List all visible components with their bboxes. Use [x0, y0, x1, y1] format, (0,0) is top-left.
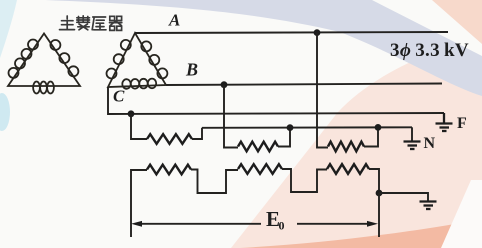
resistor R5 (lower row, second)	[238, 164, 282, 174]
label F	[457, 115, 467, 132]
resistor R1 (C phase, upper row)	[147, 134, 192, 144]
node: junction dot output	[376, 190, 383, 197]
wire: phase C bus (to fault point F)	[108, 87, 444, 114]
wire: output node to right ground	[379, 193, 428, 202]
wire: step between R5 and R6	[282, 169, 327, 192]
resistor R6 (lower row, third)	[327, 164, 369, 174]
wire: phase A bus	[135, 32, 448, 33]
resistor R2 (B phase, upper row)	[238, 142, 278, 152]
wire: C-phase lead down to resistor R1	[131, 114, 147, 139]
ground (bottom right)	[420, 202, 437, 210]
wire: neutral line N	[202, 126, 412, 129]
node: junction dot on A bus	[314, 29, 321, 36]
wire: output node down past E0 line	[378, 193, 380, 237]
svg-text:B: B	[185, 60, 198, 80]
svg-text:N: N	[424, 135, 436, 152]
label 3phi3.3kV	[390, 40, 469, 61]
wire: left lead of lower resistor chain	[131, 170, 147, 237]
node: junction dot R2/neutral	[287, 124, 294, 131]
ground N (neutral ground)	[404, 142, 421, 150]
wire: R3 up to neutral line	[364, 127, 378, 146]
arrowhead right	[367, 221, 378, 227]
svg-text:A: A	[168, 11, 180, 30]
dimension line E0 with arrows	[136, 223, 372, 225]
wire: R1 to neutral line	[192, 128, 202, 139]
label E0	[266, 207, 285, 233]
wire: neutral line to ground N	[411, 127, 413, 141]
arrowhead left	[131, 221, 142, 227]
node: junction dot R3/neutral	[375, 124, 382, 131]
label B	[185, 60, 198, 80]
wire: R2 up to neutral line	[278, 128, 290, 147]
transformer secondary winding delta (connected to buses)	[107, 33, 168, 89]
node: junction dot on C bus	[128, 110, 135, 117]
transformer primary winding delta (left)	[8, 34, 80, 94]
wire: A-phase drop to resistor R3	[317, 33, 328, 148]
label C	[113, 87, 125, 106]
svg-text:3ϕ 3.3 kV: 3ϕ 3.3 kV	[390, 40, 469, 61]
svg-text:F: F	[457, 115, 467, 132]
svg-text:C: C	[113, 87, 125, 106]
resistor R4 (lower row, first)	[147, 165, 191, 175]
wire: step between R4 and R5	[191, 170, 238, 194]
wire: B-phase drop to resistor R2	[224, 85, 238, 148]
node: junction dot on B bus	[221, 81, 228, 88]
title 主變壓器 (main transformer)	[60, 16, 122, 31]
label A	[168, 11, 180, 30]
ground F (fault point)	[436, 113, 453, 131]
wire: phase B bus	[166, 84, 442, 86]
label N	[424, 135, 436, 152]
wire: R6 down to output node	[369, 169, 379, 193]
resistor R3 (A phase, upper row)	[328, 142, 364, 152]
